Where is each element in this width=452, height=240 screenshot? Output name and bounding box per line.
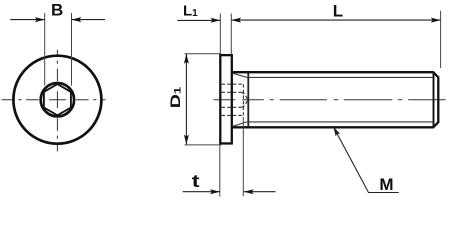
M leader line [333,127,398,193]
B extension line left [44,13,46,86]
M leader arrowhead [333,127,340,137]
thread runout diagonal top [233,73,247,77]
L right arrowhead [431,18,441,23]
L1 dimension line left segment [177,19,220,21]
svg-text:t: t [192,171,200,191]
full-thread boundary line [247,73,249,127]
L1 left arrowhead [211,18,221,23]
hidden socket line top inner [222,91,242,93]
thread root line top [247,76,433,78]
L dimension line [231,19,440,21]
head rectangle [220,55,232,143]
B dimension line right segment [72,19,106,21]
t dimension line right segment [244,191,276,193]
hidden socket line bottom outer [222,114,244,116]
L extension line right [440,11,442,68]
body centerline [213,99,445,101]
body outline with chamfered end [232,72,438,127]
thread root line bottom [247,121,433,123]
t extension line left [219,145,221,197]
L left arrowhead [231,18,241,23]
D1 top arrowhead [184,54,189,64]
L1/L shared extension line [230,14,232,55]
D1 bottom arrowhead [184,135,189,145]
B extension line right [71,13,73,86]
D1 extension line bottom [185,144,222,146]
B dimension line left segment [10,19,44,21]
D1 dimension line [185,54,187,144]
hidden socket line bottom inner [222,106,242,108]
t right arrowhead [244,189,254,194]
vertical centerline [56,50,58,152]
B left arrowhead [35,17,45,22]
hidden socket line top outer [222,83,244,85]
socket chamfer circle [41,83,74,116]
L1 extension line left [219,14,221,55]
B right arrowhead [72,17,82,22]
hidden socket bottom vertical [242,84,244,115]
svg-text:M: M [379,175,393,194]
horizontal centerline [2,99,106,101]
hidden socket cone bottom [242,100,248,108]
hidden socket cone top [242,92,248,100]
thread runout diagonal bottom [233,122,247,126]
chamfer edge line at tip [433,73,435,127]
t dimension line left segment [183,191,220,193]
svg-text:L: L [333,2,343,21]
D1 extension line top [185,53,222,55]
head outer circle [13,56,101,144]
t left arrowhead [210,189,220,194]
svg-text:B: B [51,1,63,20]
hex socket [44,84,71,115]
t extension line right [242,117,244,196]
